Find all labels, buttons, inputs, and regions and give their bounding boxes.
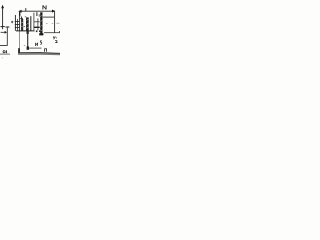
ground thin line left [0,53,10,55]
base tick 1 [36,30,38,32]
central rod [27,31,29,49]
side box top bar [34,21,40,23]
body bottom bar [16,30,35,32]
label a) [3,51,5,53]
rod dash [24,44,25,46]
left rail lower [19,31,21,48]
foundation line [28,47,41,49]
spring rungs [15,21,20,23]
thick wall [40,12,42,33]
datum label row2 [55,40,57,42]
outer dash [56,22,59,24]
lever right arrowhead [52,10,55,13]
background paper [0,0,60,60]
rod foot [27,46,29,49]
pivot tick above lever [25,8,27,11]
foundation glyph 2 [40,41,42,44]
lever left arrowhead [18,10,21,13]
wall top-left tick [39,14,40,17]
side box left line [33,13,35,31]
stem foot horizontal [0,45,8,47]
ground band [18,53,60,56]
crossbar at arrow base [1,26,5,28]
valve body left line [21,16,23,19]
inner dash [46,22,48,24]
side box bottom bar [34,26,40,28]
wall foot [39,33,43,35]
top lever line [20,10,54,12]
right rail [54,11,56,33]
spring left coil [14,15,16,31]
hatched core band [26,17,29,31]
stem T-top [6,26,10,28]
datum label row1 [52,36,55,38]
side box right line [37,18,39,30]
dash near wall [52,22,53,24]
rail foot block [18,48,20,54]
rail cross tick [20,18,23,20]
x mark label [11,21,13,23]
channel dot [24,26,25,27]
left vertical arrow shaft [2,6,4,29]
left rail upper [19,11,21,31]
hanging stem [6,27,8,45]
label N [42,5,44,9]
left arrowhead (top) [1,5,4,9]
foundation glyph 1 [35,43,37,46]
ground band top edge [18,52,60,55]
valve body left hatched band [21,19,23,31]
base tick 2 [39,30,41,32]
speck [2,57,3,58]
datum line right [44,32,60,34]
rod boss [27,31,29,34]
small right arrow [1,31,5,33]
liquid level line [43,16,54,18]
core top tick [25,16,26,18]
hanging tick [36,12,38,16]
datum end tick [58,31,60,33]
valve body right line [30,16,32,31]
label P (bottom right) [44,49,46,52]
